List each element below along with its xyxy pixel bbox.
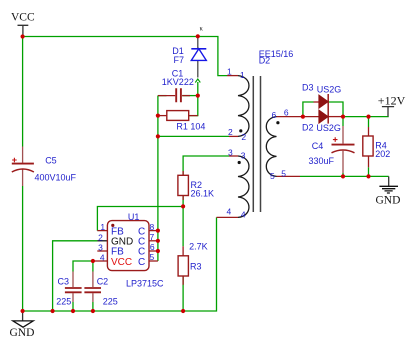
svg-text:κ: κ — [200, 25, 204, 32]
svg-text:2.7K: 2.7K — [189, 241, 208, 251]
svg-text:D3: D3 — [302, 82, 314, 92]
svg-text:R3: R3 — [190, 262, 202, 272]
svg-text:225: 225 — [56, 296, 71, 306]
svg-text:6: 6 — [272, 110, 277, 120]
svg-text:2: 2 — [228, 127, 233, 137]
svg-text:4: 4 — [100, 253, 105, 263]
svg-text:VCC: VCC — [11, 12, 35, 24]
svg-text:2: 2 — [241, 132, 246, 142]
svg-text:VCC: VCC — [111, 257, 132, 268]
svg-text:C3: C3 — [58, 277, 70, 287]
svg-text:C4: C4 — [312, 141, 324, 151]
svg-text:1: 1 — [240, 70, 245, 80]
svg-text:4: 4 — [241, 209, 246, 219]
svg-text:1KV222: 1KV222 — [162, 77, 194, 87]
svg-text:6: 6 — [284, 107, 289, 117]
svg-text:4: 4 — [227, 207, 232, 217]
svg-text:8: 8 — [150, 222, 155, 232]
svg-text:2: 2 — [98, 232, 103, 242]
svg-text:+12V: +12V — [378, 94, 406, 108]
svg-text:7: 7 — [150, 232, 155, 242]
svg-text:400V10uF: 400V10uF — [35, 173, 77, 183]
svg-text:GND: GND — [376, 194, 401, 206]
svg-text:1: 1 — [100, 222, 105, 232]
svg-text:D2: D2 — [302, 123, 314, 133]
svg-text:D2: D2 — [259, 55, 271, 65]
svg-text:F7: F7 — [174, 55, 185, 65]
svg-text:202: 202 — [375, 149, 390, 159]
svg-text:330uF: 330uF — [309, 156, 335, 166]
svg-text:3: 3 — [228, 147, 233, 157]
svg-text:1: 1 — [227, 66, 232, 76]
svg-text:US2G: US2G — [317, 85, 342, 95]
svg-text:C: C — [138, 257, 145, 268]
svg-text:U1: U1 — [128, 212, 140, 222]
svg-text:GND: GND — [10, 327, 35, 339]
svg-text:C5: C5 — [45, 156, 57, 166]
svg-text:26.1K: 26.1K — [191, 189, 215, 199]
svg-text:R1 104: R1 104 — [176, 121, 205, 131]
svg-text:225: 225 — [103, 296, 118, 306]
svg-text:LP3715C: LP3715C — [126, 279, 164, 289]
svg-text:6: 6 — [150, 242, 155, 252]
svg-text:5: 5 — [281, 169, 286, 179]
svg-text:C2: C2 — [97, 277, 109, 287]
svg-text:3: 3 — [241, 150, 246, 160]
svg-text:US2G: US2G — [316, 123, 341, 133]
svg-text:5: 5 — [150, 252, 155, 262]
svg-text:5: 5 — [270, 171, 275, 181]
svg-text:3: 3 — [98, 242, 103, 252]
